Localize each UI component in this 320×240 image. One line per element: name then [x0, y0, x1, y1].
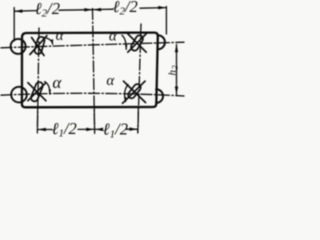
plate outline	[22, 33, 158, 108]
slotted hole upper-right	[130, 34, 144, 52]
bolt head circle lower-left	[11, 87, 27, 103]
svg-text:ℓ2/2: ℓ2/2	[35, 0, 60, 20]
dimension line l2/2 left	[14, 10, 92, 12]
centerline row 2 (lower bolt row, dash-dot)	[1, 93, 184, 96]
arrowhead alpha arc upper-right	[125, 45, 127, 50]
centerline left bolt column (dash-dot)	[37, 28, 39, 133]
svg-text:ℓ1/2: ℓ1/2	[103, 120, 128, 141]
arrowhead dim l2/2 center pointing left	[93, 8, 101, 11]
bolt cross upper-right	[128, 34, 146, 52]
angle alpha arc lower-left	[45, 82, 50, 94]
svg-text:α: α	[56, 28, 65, 44]
arrowhead alpha arc upper-left	[51, 39, 53, 45]
bolt cross lower-left	[28, 83, 46, 101]
extension line top-left	[13, 8, 15, 42]
extension line top-right	[165, 7, 167, 35]
dimension line l1/2 left	[38, 128, 95, 130]
arrowhead dim l1/2 center pointing right	[86, 128, 94, 132]
svg-text:α: α	[52, 73, 62, 92]
arrowhead dim h top	[175, 44, 178, 52]
slotted hole lower-right	[127, 83, 142, 100]
arrowhead dim l1/2 far right	[130, 127, 138, 130]
bolt head semicircle upper-right	[158, 35, 165, 49]
dimension line l1/2 right	[95, 128, 138, 130]
bolt cross upper-left	[30, 36, 47, 56]
arrowhead dim l2/2 far right	[158, 6, 166, 9]
svg-text:h2: h2	[167, 65, 180, 76]
paper background	[0, 0, 191, 150]
slotted hole upper-left	[34, 36, 46, 55]
arrowhead dim l2/2 far left	[14, 9, 22, 13]
centerline row 1 (upper bolt row, dash-dot)	[1, 42, 184, 48]
slotted hole lower-left	[30, 81, 44, 102]
angle alpha arc upper-right	[122, 35, 126, 49]
label h (rotated)	[167, 65, 180, 76]
extension line below plate center column	[93, 109, 95, 134]
centerline right bolt column (dash-dot)	[138, 24, 141, 133]
arrowhead dim l1/2 far left	[38, 128, 46, 132]
dimension line h (right side vertical)	[176, 45, 178, 95]
bolt head circle upper-left	[11, 39, 26, 54]
arrowhead dim l1/2 center pointing left	[95, 128, 103, 132]
dimension line l2/2 right	[93, 8, 166, 10]
arrowhead alpha arc lower-left	[49, 90, 51, 96]
angle alpha arc lower-right	[125, 85, 128, 102]
bolt cross lower-right	[123, 81, 146, 103]
angle alpha arc upper-left	[44, 38, 53, 45]
arrowhead dim h bottom	[175, 87, 178, 95]
extension line below plate right column	[137, 109, 139, 134]
svg-text:α: α	[109, 29, 118, 45]
bolt head semicircle lower-right	[156, 89, 163, 103]
svg-text:α: α	[106, 73, 115, 89]
extension line below plate left column	[36, 109, 38, 134]
svg-text:ℓ1/2: ℓ1/2	[52, 119, 77, 140]
arrowhead dim l2/2 center pointing right	[84, 8, 92, 12]
centerline middle column (dash-dot)	[93, 9, 95, 133]
svg-text:ℓ2/2: ℓ2/2	[113, 0, 138, 18]
arrowhead alpha arc lower-right	[124, 97, 127, 103]
